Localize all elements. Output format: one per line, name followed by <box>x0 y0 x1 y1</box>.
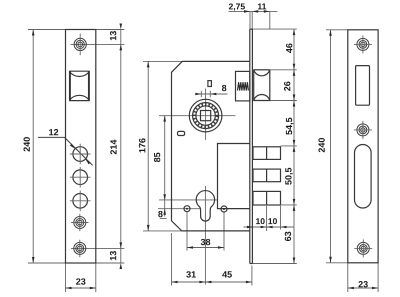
latch cutout rect <box>356 66 370 106</box>
screw hole bottom <box>357 242 369 254</box>
screw hole right <box>221 206 227 212</box>
wire: 240 top extension <box>326 29 348 31</box>
hole mid1 <box>73 170 88 185</box>
hole D12 <box>73 147 88 162</box>
wire: 38 extensions <box>186 212 188 250</box>
wire: body top extension <box>143 60 184 62</box>
hole top screw <box>74 38 86 50</box>
hole mid2 <box>73 194 88 209</box>
wire: hub vertical centerline <box>205 89 207 141</box>
wire: dim 240 right view <box>330 30 332 263</box>
spring housing <box>236 71 250 101</box>
screw hole left <box>184 206 190 212</box>
wire: 23 extension left <box>65 263 67 292</box>
wire: left 240 bottom extension <box>28 262 66 264</box>
wire: hub horizontal centerline <box>159 115 235 117</box>
plate outline <box>348 30 378 263</box>
wire: plate top extension right <box>96 29 125 31</box>
wire: leader 12 horizontal <box>38 136 66 138</box>
wire: top hole centerline extension <box>71 43 125 45</box>
internal box <box>218 144 250 209</box>
wire: top dim 2.75/11 <box>229 10 278 12</box>
small slot left of hub <box>178 131 185 135</box>
wire: body bottom extension <box>143 230 182 232</box>
wire: dim 176 <box>147 61 149 231</box>
body outline <box>172 61 250 231</box>
wire: 31/45 extensions <box>171 233 173 286</box>
wire: chain dim line <box>293 29 295 263</box>
screw hole mid <box>357 124 369 136</box>
hole small screw <box>74 217 86 229</box>
wire: 10/10 extensions <box>266 206 268 231</box>
wire: left 240 top extension <box>28 29 66 31</box>
deadbolt slot oblong <box>355 145 372 209</box>
wire: dim 85 / 8 <box>164 116 166 217</box>
faceplate strip <box>250 29 253 263</box>
wire: dim line 23 <box>66 287 96 289</box>
wire: cylinder vertical centerline <box>204 186 206 285</box>
deadbolt tooth 2 <box>253 169 281 182</box>
latch cutout spool <box>69 71 89 100</box>
wire: screwhole centerline <box>158 208 200 210</box>
wire: dim line 240 left <box>32 30 34 264</box>
wire: 8 slot dim line <box>196 93 228 95</box>
euro cylinder <box>196 191 214 222</box>
wire: leader 12 diagonal <box>65 138 93 166</box>
arrows left view <box>32 30 35 36</box>
latch head <box>254 70 270 101</box>
arrows middle <box>244 10 250 13</box>
hole bottom screw <box>74 242 86 254</box>
wire: dim 10/10 <box>244 226 295 228</box>
wire: 23 extension right <box>95 263 97 292</box>
wire: cylinder horizontal centerline <box>159 199 218 201</box>
wire: right chain extensions <box>252 28 297 30</box>
wire: 23 extensions <box>347 263 349 292</box>
arrows right view <box>329 30 332 36</box>
plate outline <box>66 30 96 264</box>
wire: dim 38 <box>187 247 224 249</box>
spindle hub <box>189 99 222 132</box>
deadbolt tooth 3 <box>253 191 281 205</box>
wire: bottom hole centerline extension <box>71 247 124 249</box>
wire: plate bottom extension right <box>96 262 125 264</box>
wire: dim 23 <box>348 287 378 289</box>
slot above hub <box>208 81 212 87</box>
deadbolt tooth 1 <box>253 147 281 160</box>
spring zigzag <box>238 82 249 90</box>
wire: 240 bottom extension <box>326 262 348 264</box>
wire: dim 31/45 <box>172 281 252 283</box>
wire: dim chain 13/214/13 <box>120 30 122 264</box>
screw hole top <box>357 38 369 50</box>
